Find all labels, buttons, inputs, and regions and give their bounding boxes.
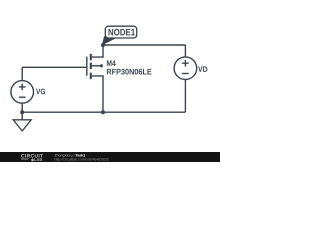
svg-text:◆LAB: ◆LAB — [30, 157, 42, 162]
wire body stub — [92, 65, 103, 67]
node junction dot NODE1 — [101, 43, 105, 47]
node junction dot VG/ground — [20, 110, 24, 114]
label RFP30N06LE — [107, 69, 152, 75]
footer watermark bar — [0, 152, 220, 162]
wire VD top stub — [184, 45, 186, 57]
footer logo strike lines — [21, 158, 29, 159]
voltage source VG — [11, 81, 34, 104]
node flag NODE1 text — [109, 29, 135, 36]
transistor M4 gate bar — [86, 57, 88, 76]
wire VD bottom stub — [184, 79, 186, 112]
transistor M4 channel segments — [90, 54, 92, 79]
node junction dot source/bottom rail — [101, 110, 105, 114]
wire VG bottom stub — [21, 103, 23, 112]
node flag NODE1 box — [105, 26, 136, 38]
wire gate from VG to gate bar — [22, 66, 87, 68]
transistor M4 body arrow — [98, 64, 102, 68]
wire VG top stub — [21, 67, 23, 80]
label M4 — [107, 60, 116, 66]
voltage source VD — [174, 57, 197, 80]
label VG — [36, 89, 45, 95]
ground — [13, 120, 31, 131]
node flag NODE1 pointer — [103, 37, 116, 45]
wire ground stub — [21, 112, 23, 120]
label VD — [198, 66, 207, 72]
wire source stub and drop — [92, 76, 103, 112]
wire drain stub and riser — [92, 45, 103, 57]
svg-text:http://circuitlab.com/c/ah4b48: http://circuitlab.com/c/ah4b48302/2 — [55, 158, 109, 162]
wire bottom rail — [22, 111, 185, 113]
wire top rail NODE1 to VD — [103, 44, 185, 46]
